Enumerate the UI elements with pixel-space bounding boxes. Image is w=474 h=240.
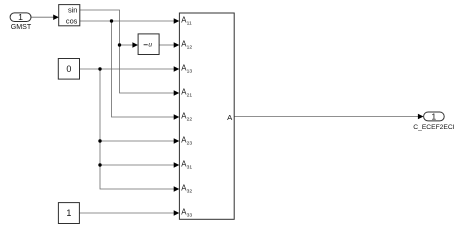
svg-text:C_ECEF2ECI: C_ECEF2ECI [413, 124, 454, 131]
svg-text:23: 23 [187, 140, 193, 146]
svg-text:31: 31 [187, 164, 193, 170]
svg-text:1: 1 [431, 112, 436, 122]
svg-text:13: 13 [187, 68, 193, 74]
svg-text:GMST: GMST [11, 23, 32, 31]
svg-text:11: 11 [187, 20, 192, 26]
svg-text:1: 1 [18, 12, 23, 22]
svg-text:21: 21 [187, 92, 193, 98]
svg-text:33: 33 [187, 212, 193, 218]
svg-text:12: 12 [187, 44, 193, 50]
svg-text:1: 1 [66, 208, 71, 218]
svg-text:32: 32 [187, 188, 193, 194]
svg-text:0: 0 [66, 64, 71, 74]
svg-text:A: A [227, 113, 233, 122]
svg-text:22: 22 [187, 116, 193, 122]
svg-text:sin: sin [68, 5, 77, 14]
svg-text:u: u [148, 41, 152, 48]
svg-text:cos: cos [66, 17, 78, 26]
